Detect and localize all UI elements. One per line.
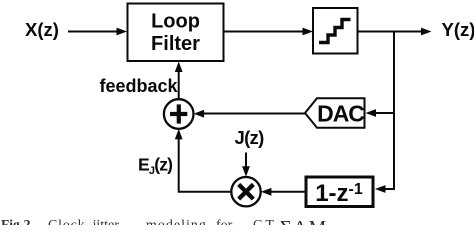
wire J(z) into multiplier <box>242 153 250 177</box>
svg-text:Loop: Loop <box>151 11 200 33</box>
wire DAC to summer <box>194 110 305 118</box>
svg-text:EJ(z): EJ(z) <box>138 155 172 178</box>
wire delay to multiplier <box>261 188 305 196</box>
svg-text:jitter: jitter <box>92 218 120 225</box>
multiplier (x) <box>231 177 260 206</box>
svg-text:modeling: modeling <box>146 218 207 225</box>
wire summer to loop filter (feedback) <box>175 62 183 100</box>
svg-text:Filter: Filter <box>151 33 200 55</box>
caption Fig. 2 <box>1 217 328 239</box>
label feedback <box>99 76 178 96</box>
label Y(z) <box>442 19 474 40</box>
svg-text:X(z): X(z) <box>25 19 59 40</box>
svg-text:feedback: feedback <box>99 76 178 96</box>
wire input arrow into loop filter <box>68 28 127 36</box>
label X(z) <box>25 19 59 40</box>
block quantizer <box>313 8 358 54</box>
block loop filter <box>128 4 224 62</box>
svg-text:DAC: DAC <box>317 101 364 127</box>
svg-text:for: for <box>216 218 233 225</box>
svg-text:Clock: Clock <box>48 218 85 225</box>
svg-text:Fig.: Fig. <box>1 217 23 225</box>
block delay 1-z^-1 <box>306 177 373 207</box>
wire feedback branch vertical from output <box>375 32 394 193</box>
wire quantizer to output Y(z) <box>358 28 432 36</box>
block DAC <box>305 98 365 127</box>
svg-text:ΣΔΜ: ΣΔΜ <box>280 217 328 225</box>
svg-text:J(z): J(z) <box>235 127 265 148</box>
svg-text:CT: CT <box>253 218 277 225</box>
wire multiplier to summer <box>175 129 232 192</box>
summer (+) <box>164 99 194 129</box>
wire branch to DAC <box>366 109 394 117</box>
label EJ(z) <box>138 155 172 178</box>
svg-text:Y(z): Y(z) <box>442 19 474 40</box>
label J(z) <box>235 127 265 148</box>
svg-text:2.: 2. <box>24 218 35 225</box>
wire loop filter to quantizer <box>224 28 314 36</box>
